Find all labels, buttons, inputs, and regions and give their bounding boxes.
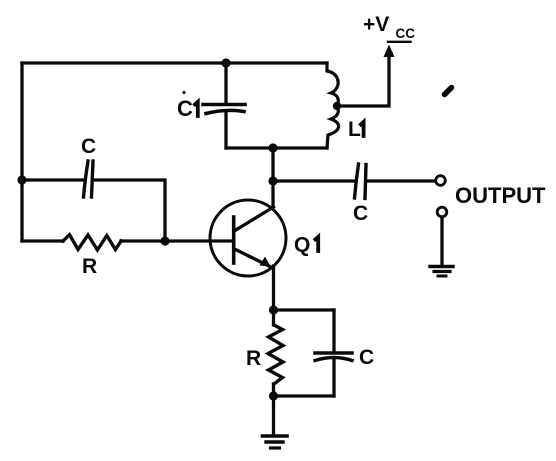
wire feedback left segment bbox=[22, 178, 83, 181]
transistor Q1 collector diagonal bbox=[235, 207, 274, 231]
transistor Q1 emitter diagonal bbox=[236, 250, 274, 269]
wire emitter ground lead bbox=[272, 396, 275, 436]
capacitor C1 top lead bbox=[224, 63, 227, 103]
wire output left segment bbox=[273, 179, 355, 182]
transistor Q1 emitter arrowhead bbox=[260, 257, 271, 267]
resistor R emitter zigzag bbox=[268, 325, 283, 384]
wire emitter vertical bbox=[272, 266, 275, 325]
node junction base wire bbox=[160, 236, 169, 245]
transistor Q1 base bar bbox=[232, 217, 236, 263]
wire C emitter bottom lead bbox=[332, 358, 335, 396]
capacitor C feedback right plate bbox=[92, 161, 94, 197]
svg-text:R: R bbox=[246, 347, 261, 370]
capacitor C1 top plate bbox=[203, 103, 245, 107]
capacitor C1 bottom plate bbox=[206, 110, 244, 113]
speck above C1 bbox=[182, 91, 185, 94]
capacitor C output right plate bbox=[365, 165, 366, 199]
svg-text:R: R bbox=[82, 255, 97, 278]
wire output right segment bbox=[367, 179, 435, 182]
wire C emitter top lead bbox=[332, 310, 335, 351]
svg-text:C: C bbox=[359, 346, 374, 369]
wire RC top horizontal bbox=[274, 308, 335, 311]
wire collector vertical bbox=[271, 148, 274, 208]
svg-text:C: C bbox=[353, 202, 368, 225]
wire output ground lead bbox=[440, 217, 443, 265]
resistor R base: wire left lead bbox=[22, 239, 63, 242]
inductor L1 bbox=[327, 63, 339, 148]
ground output bbox=[430, 265, 453, 268]
transistor Q1 circle bbox=[210, 200, 286, 276]
resistor R base right lead to transistor base bbox=[121, 239, 232, 242]
resistor R base zigzag bbox=[63, 235, 121, 250]
wire feedback right segment bbox=[94, 180, 165, 241]
capacitor C feedback left plate bbox=[84, 161, 89, 197]
underline under CC bbox=[388, 41, 411, 43]
terminal output bottom bbox=[437, 207, 447, 217]
svg-text:L: L bbox=[348, 118, 361, 141]
node junction collector / output bbox=[268, 176, 277, 185]
capacitor C emitter top plate bbox=[315, 351, 352, 355]
wire left vertical from top corner down to base wire bbox=[20, 63, 23, 241]
svg-text:C: C bbox=[177, 96, 193, 121]
svg-text:Q: Q bbox=[294, 234, 310, 257]
wire R emitter bottom lead bbox=[272, 384, 275, 396]
Vcc arrowhead bbox=[384, 45, 395, 58]
ground emitter bbox=[263, 434, 288, 438]
capacitor C emitter bottom plate bbox=[315, 358, 352, 361]
node junction emitter / RC top bbox=[269, 305, 278, 314]
capacitor C1 bottom lead bbox=[224, 112, 227, 148]
wire L1 tap to Vcc bbox=[337, 55, 389, 106]
svg-text:OUTPUT: OUTPUT bbox=[455, 183, 546, 208]
svg-text:+V: +V bbox=[363, 13, 389, 36]
stray ink speck bbox=[445, 88, 452, 95]
node junction L1 tap bbox=[333, 102, 341, 110]
wire top horizontal from left corner to L1 top bbox=[22, 61, 327, 64]
node junction left vertical / feedback bbox=[17, 175, 26, 184]
svg-text:C: C bbox=[81, 135, 96, 158]
capacitor C output left plate bbox=[355, 164, 359, 198]
wire tank bottom horizontal bbox=[226, 146, 327, 149]
terminal output top bbox=[436, 176, 446, 186]
node junction RC bottom bbox=[269, 391, 278, 400]
node junction tank bottom / collector bbox=[268, 143, 277, 152]
node junction on top wire at C1 bbox=[221, 58, 230, 67]
wire RC bottom horizontal bbox=[274, 394, 335, 397]
svg-text:CC: CC bbox=[396, 26, 416, 41]
